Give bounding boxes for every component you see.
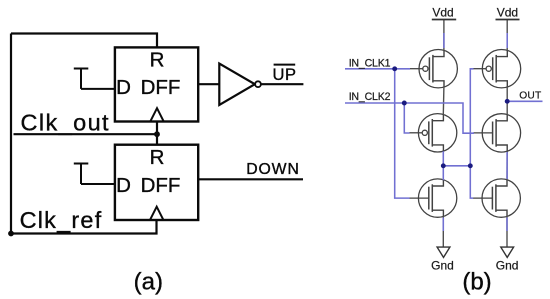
svg-text:Gnd: Gnd	[496, 259, 519, 273]
node OUT junction	[505, 99, 510, 104]
wire Gnd leads blue segments	[442, 218, 444, 232]
inverter U3	[219, 64, 255, 106]
inverter bubble	[255, 81, 261, 87]
wire Vdd1 blue segment	[443, 33, 445, 48]
gray interconnect leads	[443, 20, 507, 248]
wire M5-M6	[506, 151, 508, 180]
wire left rail	[10, 34, 12, 234]
node IN_CLK1 junction	[392, 66, 397, 71]
svg-text:Gnd: Gnd	[431, 259, 454, 273]
wire DOWN output	[198, 178, 303, 180]
svg-text:UP: UP	[273, 66, 297, 84]
power Vdd1 bar	[432, 19, 456, 21]
transistor M1 (PMOS top-left)	[410, 49, 457, 87]
svg-text:Vdd: Vdd	[497, 6, 518, 20]
wire Clk_out	[14, 133, 158, 135]
wire M6 source to Gnd2	[506, 217, 508, 248]
wire U1 Q to inverter	[198, 83, 219, 85]
svg-text:Clk_out: Clk_out	[21, 110, 110, 136]
DFF U1	[115, 47, 198, 121]
svg-text:(a): (a)	[134, 268, 163, 295]
ground Gnd2 symbol	[501, 247, 514, 257]
wire Clk_ref	[11, 220, 157, 234]
overline over UP	[274, 64, 296, 66]
wire IN_CLK2 to M2 gate	[404, 103, 409, 133]
svg-text:Clk_ref: Clk_ref	[20, 207, 103, 233]
svg-text:DOWN: DOWN	[246, 161, 300, 178]
svg-text:(b): (b)	[462, 268, 491, 295]
wire M4 drain to OUT node	[506, 87, 508, 115]
wire top to DFF1 R	[11, 34, 157, 48]
svg-text:DFF: DFF	[141, 174, 181, 197]
wire OUT	[507, 100, 542, 102]
wire between M5 and M6 blue tint	[506, 152, 508, 179]
svg-text:IN_CLK1: IN_CLK1	[349, 58, 391, 70]
svg-text:D: D	[116, 174, 131, 197]
transistor M6 (NMOS bottom-right)	[473, 179, 520, 217]
transistor M3 (NMOS bottom-left)	[409, 179, 456, 217]
ground Gnd1 symbol	[437, 247, 450, 257]
wire U1 clock to U2 R	[156, 121, 158, 145]
wire M1-M2	[442, 87, 445, 114]
node IN_CLK2 junction	[402, 101, 407, 106]
wire M3 source to Gnd1	[442, 217, 444, 248]
DFF U2	[115, 145, 198, 220]
svg-text:R: R	[150, 49, 165, 72]
svg-text:R: R	[150, 146, 165, 169]
wire node X: M2/M3 junction to M4/M6 gates	[443, 151, 470, 166]
transistor M5 (NMOS mid-right)	[473, 114, 520, 152]
wire Vdd2 blue segment	[506, 33, 508, 48]
clock triangle U2	[150, 207, 163, 220]
wire Vdd2 lead	[506, 20, 508, 51]
svg-text:Vdd: Vdd	[432, 6, 453, 20]
tie-high D input U2	[74, 164, 115, 185]
wire IN_CLK1 to M3 gate	[395, 69, 410, 198]
transistor M4 (PMOS top-right)	[473, 49, 520, 87]
blue wires	[345, 33, 543, 231]
node Clk_ref junction	[8, 231, 14, 237]
svg-text:OUT: OUT	[519, 91, 541, 102]
node X junction left	[441, 163, 446, 168]
wire IN_CLK1	[345, 68, 410, 70]
tie-high D input U1	[74, 69, 115, 89]
power Vdd2 bar	[496, 19, 520, 21]
svg-text:DFF: DFF	[141, 76, 181, 99]
transistor M2 (PMOS mid-left)	[409, 114, 456, 152]
svg-text:IN_CLK2: IN_CLK2	[349, 91, 391, 103]
node Clk_out junction	[154, 131, 160, 137]
svg-text:D: D	[116, 76, 131, 99]
clock triangle U1	[150, 108, 163, 121]
wire UP output	[261, 83, 303, 85]
node X junction right	[468, 163, 473, 168]
wire IN_CLK2	[345, 103, 474, 133]
wire Vdd1 lead	[443, 20, 445, 51]
